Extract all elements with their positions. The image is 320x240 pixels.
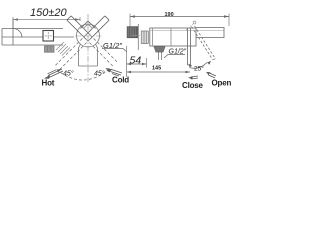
svg-text:45°: 45° (94, 70, 105, 78)
svg-text:150±20: 150±20 (30, 7, 68, 19)
svg-text:Close: Close (182, 81, 204, 90)
svg-text:190: 190 (165, 12, 174, 18)
svg-text:Cold: Cold (112, 76, 129, 85)
svg-text:Open: Open (212, 79, 232, 88)
svg-text:54: 54 (130, 54, 142, 66)
svg-text:G1/2″: G1/2″ (103, 41, 122, 50)
svg-text:G1/2″: G1/2″ (169, 49, 187, 56)
svg-text:145: 145 (152, 66, 161, 72)
svg-text:Hot: Hot (42, 79, 55, 88)
svg-text:25°: 25° (194, 65, 204, 73)
svg-text:45°: 45° (63, 70, 74, 78)
